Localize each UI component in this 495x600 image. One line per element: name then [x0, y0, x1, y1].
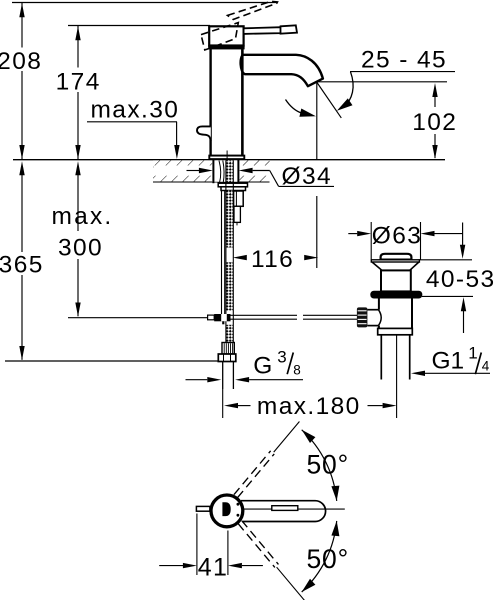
dimension 365 vertical line + arrows	[19, 161, 24, 175]
adjustable jet diagonal line	[317, 83, 341, 118]
svg-text:max.: max.	[52, 203, 114, 230]
non-return valve housing	[234, 191, 244, 206]
shank thread profile lines	[219, 161, 224, 183]
extension line, top of lever (174 ref)	[68, 25, 210, 27]
dimension Ø34 arrows + leader	[187, 170, 200, 172]
reference line, spout outlet level (102 ref)	[317, 81, 447, 83]
G3/8 hose nut	[218, 354, 236, 362]
svg-text:G1: G1	[432, 347, 465, 374]
threaded shank cut-out	[212, 160, 239, 181]
countertop underside line	[153, 181, 270, 183]
svg-text:3: 3	[277, 347, 286, 366]
dimension 116 arrows	[233, 255, 247, 260]
svg-text:25 - 45: 25 - 45	[361, 47, 447, 74]
curved leader arrow (25-45, right)	[344, 72, 354, 108]
lever top view	[196, 506, 210, 511]
spout swivel lower position (dashed) + extension	[238, 521, 311, 600]
svg-text:Ø34: Ø34	[282, 163, 333, 190]
rod clamp block	[214, 314, 230, 321]
aerator slot	[272, 506, 298, 511]
countertop surface line	[13, 159, 445, 161]
waste tailpipe	[380, 335, 382, 380]
valve lower section	[234, 206, 240, 222]
rod clamp small box	[208, 315, 215, 320]
svg-text:102: 102	[412, 109, 457, 136]
lever (horizontal position)	[244, 27, 281, 34]
faucet body	[211, 48, 243, 156]
dimension 102 vertical line + arrows	[432, 83, 437, 97]
25-45 underline	[350, 71, 455, 73]
spout top view	[241, 501, 326, 522]
dimension 41 arrows	[159, 565, 183, 567]
clearance band for diameter arrows	[154, 166, 270, 176]
svg-text:116: 116	[251, 246, 294, 273]
faucet body right edge (over spout)	[241, 49, 243, 156]
svg-text:G: G	[253, 352, 272, 379]
lever handle, raised position (dashed)	[201, 1, 278, 50]
svg-text:208: 208	[0, 48, 42, 75]
dimension 174 vertical line + arrows	[77, 26, 79, 68]
flexible supply hose (braided)	[226, 160, 233, 182]
dimension max.180 arrows	[224, 403, 238, 408]
svg-text:Ø63: Ø63	[372, 222, 423, 249]
spout centerline	[243, 508, 345, 510]
41 extension lines	[196, 514, 198, 576]
svg-text:4: 4	[482, 359, 490, 374]
lever handle base bottom bar	[208, 45, 244, 49]
faucet axis line	[226, 151, 228, 191]
waste lower body	[378, 299, 380, 310]
dimension Ø63 arrows	[348, 233, 357, 235]
G3/8 connection tube	[222, 362, 224, 390]
knob neck	[367, 309, 379, 311]
pop-up pull rod knob	[197, 126, 211, 140]
svg-text:41: 41	[198, 553, 229, 581]
svg-text:300: 300	[58, 234, 103, 261]
water stream axis line	[316, 83, 318, 160]
lever cutout (D shape)	[222, 502, 230, 516]
ball joint arc	[379, 310, 382, 325]
knurled adjuster knob	[357, 307, 368, 327]
threaded shank walls	[212, 160, 214, 183]
svg-text:max.180: max.180	[257, 393, 361, 420]
swivel arc lower	[302, 521, 337, 592]
waste funnel neck	[372, 262, 382, 270]
countertop cross-section hatching	[153, 160, 270, 181]
svg-text:365: 365	[0, 251, 44, 278]
reference line, pull-rod level (max.300 ref)	[68, 317, 208, 319]
base flange	[209, 156, 244, 160]
waste upper cylinder	[381, 270, 411, 291]
dimension max.300 vertical line + arrows	[75, 161, 80, 175]
max.30 underline + leader arrow	[87, 121, 177, 123]
svg-text:50°: 50°	[307, 544, 349, 574]
waste push cap	[381, 254, 412, 260]
extension line waste axis	[396, 383, 398, 418]
waste extension lines (Ø63)	[370, 222, 372, 260]
lever handle base	[209, 26, 243, 45]
svg-text:174: 174	[56, 69, 101, 96]
waste flange	[371, 260, 419, 262]
mounting nut	[221, 187, 246, 191]
svg-text:max.30: max.30	[91, 96, 180, 123]
dimension 208 vertical line + arrows	[21, 3, 23, 48]
svg-text:1: 1	[468, 343, 477, 362]
dimension arrows G3/8	[186, 379, 208, 381]
horizontal pop-up rod (right segment)	[303, 314, 357, 316]
curved leader arrow (left, to stream axis)	[286, 100, 303, 114]
spout swivel upper position (dashed) + extension	[234, 419, 301, 497]
extension line below tube	[222, 389, 224, 418]
reference line, hose end (365 ref)	[5, 360, 218, 362]
extension line, top of raised lever (208 ref)	[12, 2, 277, 4]
waste axis line	[396, 335, 398, 383]
index dots	[237, 503, 240, 506]
dimension 40-53 lines + arrows	[462, 223, 464, 246]
pop-up pull rod (vertical)	[221, 191, 223, 315]
faucet body circle (top view)	[211, 495, 243, 527]
svg-text:8: 8	[293, 363, 301, 378]
swivel arc upper	[302, 430, 337, 501]
waste step ring	[378, 328, 413, 334]
mounting washer	[218, 183, 247, 187]
G1 1/4 leader arrow	[424, 372, 490, 374]
hose ribbed connector	[222, 343, 234, 355]
pull rod thin section	[208, 317, 231, 319]
svg-text:50°: 50°	[307, 449, 349, 479]
waste O-ring seal	[370, 291, 422, 299]
svg-text:40-53: 40-53	[426, 266, 495, 293]
spout	[241, 55, 323, 86]
horizontal pop-up rod (left segment)	[231, 314, 298, 316]
